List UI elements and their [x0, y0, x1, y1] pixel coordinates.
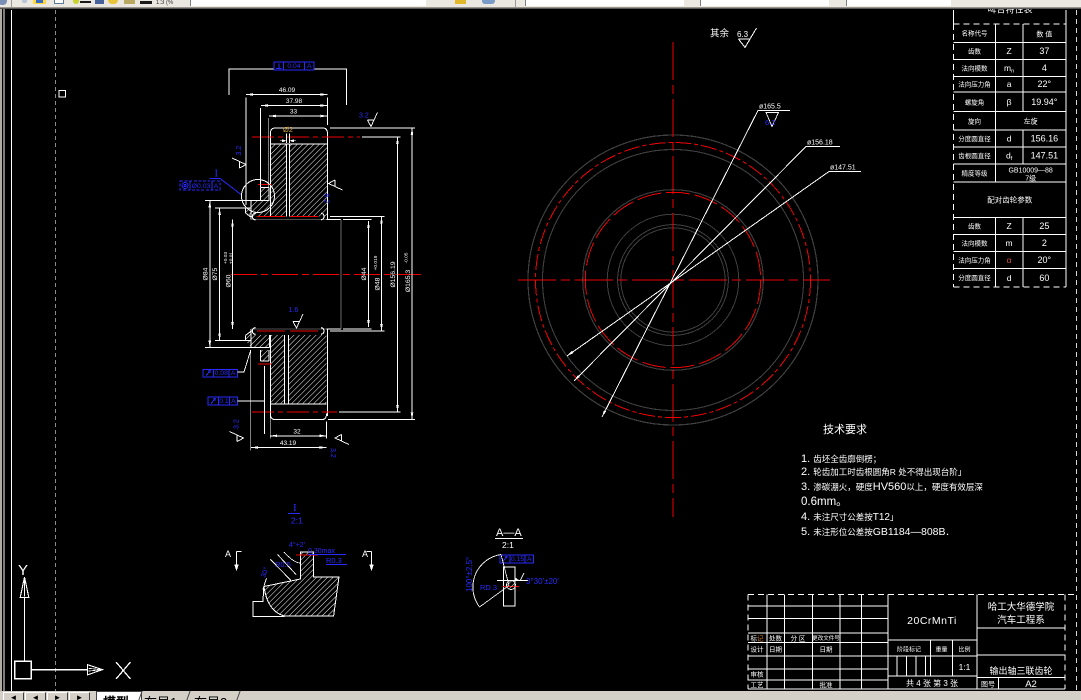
sheet left border dashed [55, 10, 57, 691]
svg-text:精度等级: 精度等级 [962, 169, 989, 178]
gear axis centerline [231, 274, 425, 276]
dimension phi84 [209, 201, 211, 348]
svg-text:设计: 设计 [751, 645, 765, 654]
diameter leader phi156.18 [574, 147, 840, 382]
small pin hole (phi2) through rim [285, 144, 287, 217]
svg-text:2: 2 [1042, 238, 1047, 248]
svg-text:分 区: 分 区 [791, 634, 806, 643]
svg-text:37: 37 [1039, 46, 1049, 56]
svg-text:ø156.18: ø156.18 [807, 140, 833, 147]
svg-text:3. 渗碳淜火，硬度HV560以上，硬度有效层深: 3. 渗碳淜火，硬度HV560以上，硬度有效层深 [801, 481, 983, 493]
svg-text:日期: 日期 [820, 646, 834, 654]
svg-text:3°30'±20': 3°30'±20' [526, 577, 559, 586]
GD&T frame circular runout 0.08 A [203, 369, 237, 377]
dimension phi156.19 [397, 137, 399, 412]
svg-text:A: A [214, 183, 219, 190]
detail I profile [264, 552, 339, 616]
svg-text:I: I [215, 169, 219, 180]
diameter leader phi165.5 [602, 111, 790, 418]
svg-text:输出轴三联齿轮: 输出轴三联齿轮 [989, 665, 1052, 676]
svg-text:0.08: 0.08 [215, 370, 228, 377]
svg-text:批准: 批准 [820, 680, 834, 689]
svg-text:GB10009—88: GB10009—88 [1008, 168, 1052, 175]
svg-text:7级: 7级 [1025, 174, 1036, 183]
svg-text:+0.019: +0.019 [373, 255, 379, 270]
pickbox cursor [59, 91, 66, 98]
A-A tooth cross-section [504, 567, 516, 606]
svg-text:R0.3: R0.3 [326, 556, 342, 565]
svg-text:2. 轮齿加工时齿根圆角R 处不得出现台阶」: 2. 轮齿加工时齿根圆角R 处不得出现台阶」 [801, 466, 966, 478]
svg-text:Ø75: Ø75 [212, 267, 219, 280]
svg-text:法向模数: 法向模数 [962, 63, 989, 72]
svg-text:技术要求: 技术要求 [823, 423, 867, 436]
svg-text:名称代号: 名称代号 [962, 29, 989, 38]
pitch lines (red) [252, 136, 360, 138]
svg-text:6.3: 6.3 [737, 30, 749, 39]
svg-text:46.09: 46.09 [279, 87, 296, 94]
svg-text:6.2: 6.2 [323, 194, 330, 204]
svg-text:100°±2,5°: 100°±2,5° [465, 557, 474, 592]
A-A angle arc 100 deg [473, 555, 501, 608]
roughness 3.2 bottom right [335, 434, 349, 444]
GD&T frame runout 0.1 A [208, 397, 237, 405]
svg-text:β: β [1007, 97, 1012, 107]
svg-text:d: d [1007, 134, 1012, 144]
svg-text:+0.03: +0.03 [223, 252, 229, 264]
svg-text:5. 未注形位公差按GB1184—808B．: 5. 未注形位公差按GB1184—808B． [801, 526, 954, 538]
svg-text:3.2: 3.2 [329, 448, 336, 458]
svg-text:0.15: 0.15 [511, 556, 524, 563]
roughness 3.2 bottom left [230, 432, 244, 442]
svg-text:共 4 张 第 3 张: 共 4 张 第 3 张 [906, 678, 958, 688]
svg-text:156.16: 156.16 [1031, 134, 1059, 144]
canvas left edge lines [0, 9, 2, 691]
dimension 32 [270, 435, 326, 437]
svg-text:其余: 其余 [710, 28, 730, 40]
front view centerlines [518, 279, 830, 281]
svg-text:齿数: 齿数 [968, 46, 982, 55]
svg-text:重量: 重量 [935, 646, 947, 654]
keyway slot lines with end arcs [257, 216, 319, 218]
svg-text:A: A [527, 556, 532, 563]
svg-text:A: A [225, 549, 231, 559]
svg-text:Ø2: Ø2 [283, 125, 293, 134]
svg-text:日期: 日期 [769, 646, 783, 654]
svg-text:比例: 比例 [958, 646, 970, 654]
dimension 46.09 [229, 69, 274, 95]
svg-text:左旋: 左旋 [1024, 117, 1038, 126]
svg-text:22°: 22° [1038, 79, 1052, 89]
X axis arrow [88, 665, 103, 675]
roughness 3.2 rim left face [232, 158, 246, 168]
svg-text:A: A [362, 549, 368, 559]
svg-text:法向模数: 法向模数 [962, 238, 989, 247]
svg-text:标记: 标记 [751, 634, 765, 643]
dimension phi75 [219, 208, 221, 340]
detail I circle [242, 180, 275, 213]
svg-text:m: m [1006, 238, 1013, 248]
svg-text:审核: 审核 [751, 670, 765, 679]
svg-text:20CrMnTi: 20CrMnTi [907, 615, 957, 627]
svg-text:Z: Z [1006, 221, 1011, 231]
svg-text:工艺: 工艺 [751, 681, 765, 689]
svg-text:60: 60 [1039, 273, 1049, 283]
Y axis arrow [20, 577, 29, 598]
svg-text:哈工大华德学院: 哈工大华德学院 [988, 601, 1055, 613]
svg-text:A: A [231, 370, 236, 377]
svg-text:汽车工程系: 汽车工程系 [997, 614, 1045, 626]
svg-text:Ø0.03: Ø0.03 [192, 183, 211, 190]
dimension phi60 +0.03/+0.01 [232, 220, 234, 330]
svg-text:4: 4 [1042, 63, 1047, 73]
svg-text:ø165.5: ø165.5 [759, 104, 781, 111]
bottom model/layout tab bar [0, 691, 1081, 700]
svg-text:1. 齿坯全齿廓倒楞；: 1. 齿坯全齿廓倒楞； [801, 453, 881, 465]
svg-text:配对齿轮参数: 配对齿轮参数 [987, 195, 1032, 205]
svg-text:分度圆直径: 分度圆直径 [958, 273, 991, 282]
svg-text:处数: 处数 [769, 634, 783, 643]
svg-text:32: 32 [293, 428, 301, 435]
diameter leader phi147.51 [567, 172, 861, 357]
gear section view outline [205, 128, 328, 420]
svg-text:3.2: 3.2 [359, 113, 369, 120]
svg-text:6.2: 6.2 [765, 118, 775, 127]
svg-text:2:1: 2:1 [291, 516, 303, 526]
svg-text:更改文件号: 更改文件号 [812, 634, 840, 642]
top toolbar strip (cut off) [0, 0, 1081, 8]
roughness 1.6 bore [293, 314, 303, 328]
svg-text:齿根圆直径: 齿根圆直径 [958, 151, 991, 160]
title block [748, 594, 1076, 596]
dimension phi165.3 -0.05 [411, 128, 413, 420]
material 20CrMnTi [888, 639, 977, 641]
svg-text:旋向: 旋向 [968, 116, 981, 125]
svg-text:147.51: 147.51 [1031, 151, 1059, 161]
hatched cut areas [270, 145, 286, 217]
svg-text:d: d [1007, 273, 1012, 283]
svg-text:Ø44: Ø44 [361, 267, 368, 280]
roughness 3.2 top right [367, 113, 377, 127]
dimension 43.19 [251, 447, 327, 449]
svg-text:A: A [307, 63, 312, 70]
dimension phi44 [368, 221, 370, 327]
dimension 37.98 [261, 105, 328, 107]
svg-text:I: I [293, 502, 297, 514]
oil hole top (detail I region) [260, 188, 262, 201]
X label [116, 662, 131, 679]
svg-text:RD.3: RD.3 [480, 583, 497, 592]
roughness 6.2 at tip label [766, 113, 779, 127]
svg-text:α: α [1007, 255, 1012, 265]
svg-text:Z: Z [1006, 46, 1011, 56]
svg-text:19.94°: 19.94° [1031, 97, 1058, 107]
svg-text:A2: A2 [1025, 679, 1037, 690]
svg-text:-0.05: -0.05 [404, 252, 410, 263]
svg-text:0.1: 0.1 [219, 398, 229, 405]
dimension phi48 +0.019 [381, 217, 383, 332]
svg-text:1:1: 1:1 [959, 662, 971, 672]
svg-text:+0.01: +0.01 [229, 252, 235, 264]
roughness 6.2 rim right face [329, 180, 343, 190]
svg-text:Ø48: Ø48 [375, 277, 382, 290]
svg-text:齿数: 齿数 [968, 221, 982, 230]
svg-text:图号: 图号 [981, 681, 995, 689]
bore lines (dark) [251, 219, 327, 221]
svg-text:4°+2': 4°+2' [289, 541, 305, 549]
dimension 33 [269, 115, 328, 117]
svg-text:2:1: 2:1 [502, 540, 514, 550]
svg-text:33: 33 [290, 109, 298, 116]
svg-text:分度圆直径: 分度圆直径 [958, 134, 991, 143]
svg-text:37.98: 37.98 [286, 98, 303, 105]
oil hole extension line [264, 366, 266, 434]
UCS icon [15, 661, 32, 679]
GD&T frame perpendicularity 0.04 A (top) [274, 62, 314, 70]
svg-text:A: A [231, 398, 236, 405]
svg-text:43.19: 43.19 [280, 440, 297, 447]
svg-text:0.30max: 0.30max [308, 548, 335, 555]
svg-text:螺旋角: 螺旋角 [965, 97, 985, 106]
school name [977, 627, 1065, 629]
svg-text:3.2: 3.2 [236, 146, 243, 156]
svg-text:ø147.51: ø147.51 [830, 165, 856, 172]
svg-text:A—A: A—A [496, 527, 522, 539]
svg-text:法向压力角: 法向压力角 [958, 80, 991, 89]
svg-text:Ø165.3: Ø165.3 [405, 270, 412, 293]
svg-text:Ø84: Ø84 [202, 267, 209, 280]
svg-text:4. 未注尺寸公差按T12」: 4. 未注尺寸公差按T12」 [801, 511, 899, 523]
svg-text:a: a [1007, 79, 1012, 89]
oil hole bottom [260, 350, 262, 361]
GD&T frame profile 0.15 A [500, 555, 534, 563]
sheet right border dashed [1076, 10, 1078, 691]
svg-text:Ø60: Ø60 [226, 274, 233, 287]
svg-text:1.6: 1.6 [289, 307, 299, 314]
svg-text:0.6mm。: 0.6mm。 [801, 496, 848, 508]
gear front view circles [528, 135, 818, 425]
right side extension lines [330, 216, 385, 218]
svg-text:20°: 20° [1038, 255, 1052, 265]
svg-text:25: 25 [1039, 221, 1049, 231]
svg-text:3.2: 3.2 [234, 419, 241, 429]
svg-text:法向压力角: 法向压力角 [958, 255, 991, 264]
svg-text:阶段标记: 阶段标记 [897, 646, 921, 654]
svg-text:数 值: 数 值 [1036, 29, 1052, 38]
svg-text:0.04: 0.04 [287, 63, 300, 70]
svg-text:Ø156.19: Ø156.19 [390, 261, 397, 287]
svg-text:R0.5: R0.5 [275, 560, 291, 569]
svg-text:Y: Y [18, 562, 28, 579]
